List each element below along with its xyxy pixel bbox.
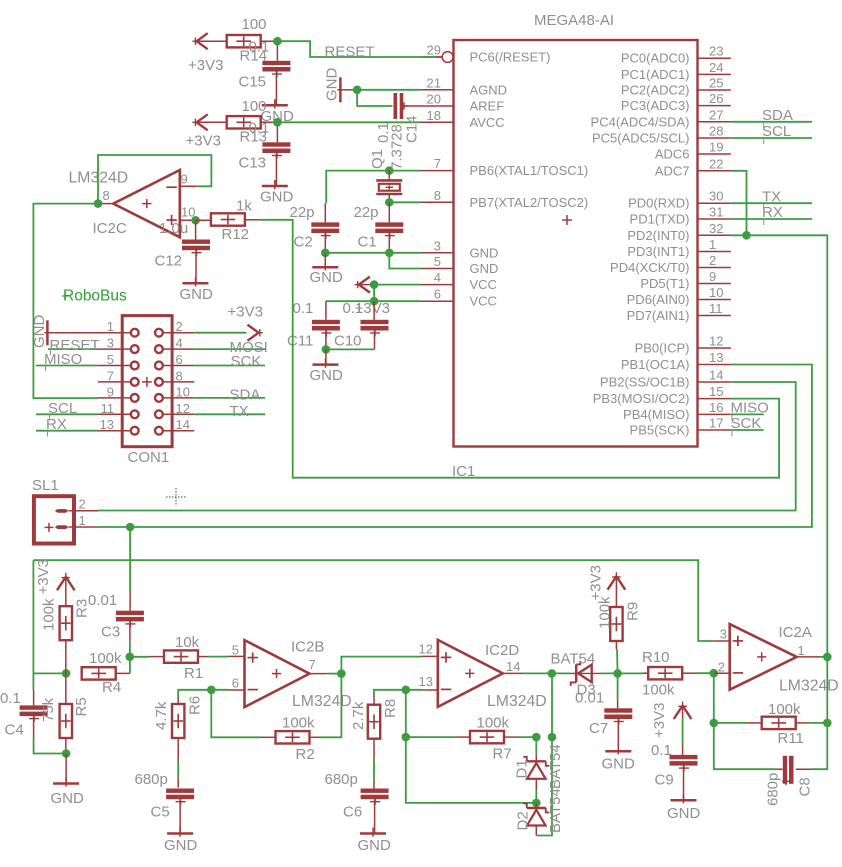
wire C1 top: [388, 202, 390, 222]
svg-text:4.7k: 4.7k: [153, 701, 170, 730]
wire to GND (R5): [65, 754, 67, 784]
svg-text:16: 16: [709, 400, 723, 415]
wire C15-GND: [275, 72, 277, 106]
label 100k (R11): [768, 701, 801, 718]
wire T branch to R-node: [33, 672, 66, 674]
capacitor C13: [262, 142, 290, 159]
wire ADC7 to INT0: [731, 171, 747, 236]
wire R8 top to pin13: [374, 690, 438, 706]
wire C9-GND: [683, 766, 685, 801]
label C9: [655, 772, 674, 789]
svg-text:IC2A: IC2A: [779, 624, 812, 641]
label LM324D (IC2B): [292, 693, 352, 710]
wire R5 bottom: [65, 738, 67, 754]
svg-text:BAT54: BAT54: [547, 788, 564, 833]
svg-text:C10: C10: [334, 333, 362, 350]
label R14: [240, 48, 268, 65]
svg-text:C6: C6: [343, 804, 362, 821]
IC1 pin 27 PC4(ADC4/SDA): [591, 107, 731, 129]
svg-text:100k: 100k: [477, 715, 510, 732]
svg-text:680p: 680p: [135, 771, 168, 788]
IC1 pin 2 PD4(XCK/T0): [610, 253, 731, 275]
wire SDA (CON1 pin10): [194, 397, 265, 399]
wire C8 left: [714, 723, 783, 769]
junction dot IC2D out: [548, 669, 557, 678]
svg-text:11: 11: [101, 401, 115, 416]
+3V3 symbol (R14): [192, 33, 227, 49]
svg-text:2: 2: [79, 496, 86, 511]
junction dot IC2B -in: [207, 686, 216, 695]
svg-text:2.7k: 2.7k: [350, 701, 367, 730]
svg-text:7: 7: [434, 156, 441, 171]
wire C13-GND: [275, 153, 277, 186]
IC2A output stub: [797, 656, 820, 658]
label 1 (IC2A): [798, 643, 805, 658]
IC1 pin 19 ADC6: [655, 140, 731, 162]
junction dot R3R4R5: [62, 669, 71, 678]
label +3V3 (R13): [186, 133, 221, 150]
wire AGND down to C14: [357, 90, 392, 106]
+3V3 symbol (C9): [674, 702, 692, 720]
wire R10 right: [683, 672, 714, 674]
svg-text:14: 14: [709, 368, 723, 383]
wire IC2C feedback: [98, 155, 211, 204]
label R8 rotated: [382, 699, 399, 718]
IC1 pin 1 PD3(INT1): [627, 237, 731, 259]
wire R7 left: [406, 736, 471, 738]
svg-text:5: 5: [434, 254, 441, 269]
label R9 rotated: [625, 602, 642, 621]
svg-text:PD5(T1): PD5(T1): [640, 276, 689, 291]
svg-text:PD4(XCK/T0): PD4(XCK/T0): [610, 260, 689, 275]
svg-text:D2: D2: [515, 811, 532, 830]
svg-text:PD2(INT0): PD2(INT0): [627, 228, 689, 243]
svg-text:ADC7: ADC7: [655, 163, 690, 178]
junction dot XTAL1: [385, 166, 394, 175]
label +3V3 (C9) rotated: [651, 703, 668, 738]
svg-text:R10: R10: [642, 649, 670, 666]
label +3V3 (R14): [188, 57, 223, 74]
svg-text:8: 8: [103, 188, 110, 203]
wire R12 right: [245, 219, 259, 221]
IC1 pin 25 PC2(ADC2): [621, 76, 731, 98]
label C15: [239, 74, 267, 91]
label RoboBus: [62, 288, 127, 305]
wire D3 right: [601, 672, 618, 674]
ground symbol (AGND) rotated: [337, 77, 352, 102]
label R10 (name): [642, 649, 670, 666]
wire MOSI (CON1 pin4): [194, 348, 265, 350]
capacitor C11: [312, 320, 340, 337]
CON1 pins 13/14: [98, 417, 194, 434]
svg-text:RX: RX: [762, 204, 783, 221]
label R1: [184, 665, 203, 682]
capacitor C10: [361, 320, 389, 337]
crosshair cursor: [166, 488, 186, 506]
wire R2 right up to out: [309, 674, 341, 738]
wire R6 bottom to C5: [177, 738, 179, 788]
wire C7 top: [617, 673, 619, 708]
svg-text:22p: 22p: [354, 204, 379, 221]
svg-text:R2: R2: [296, 746, 315, 763]
svg-text:0.1: 0.1: [343, 300, 364, 317]
wire MISO pin16: [731, 413, 764, 415]
svg-text:2: 2: [718, 660, 725, 675]
wire C12 top: [195, 220, 197, 239]
svg-text:+3V3: +3V3: [186, 133, 221, 150]
wire IC2B out to IC2D +in: [341, 656, 437, 673]
svg-text:680p: 680p: [325, 771, 358, 788]
svg-text:R1: R1: [184, 665, 203, 682]
svg-text:22p: 22p: [290, 204, 315, 221]
svg-text:SCL: SCL: [762, 123, 791, 140]
svg-text:26: 26: [709, 91, 723, 106]
resistor R2: [276, 731, 310, 743]
svg-text:IC2B: IC2B: [291, 639, 324, 656]
label RESET: [325, 44, 375, 61]
svg-text:C9: C9: [655, 772, 674, 789]
wire AGND to pin21: [352, 89, 421, 91]
svg-text:3: 3: [720, 627, 727, 642]
capacitor C3: [116, 611, 144, 628]
IC1 pin 28 PC5(ADC5/SCL): [592, 124, 731, 146]
svg-text:PD7(AIN1): PD7(AIN1): [627, 308, 690, 323]
svg-text:10: 10: [709, 285, 723, 300]
label 0.1 (C15 value): [249, 39, 270, 56]
junction dot INT0: [742, 231, 751, 240]
wire C1 bottom: [388, 233, 390, 253]
IC1 pin 32 PD2(INT0): [627, 221, 731, 243]
label C4: [5, 722, 24, 739]
junction dot D1-D2: [532, 799, 541, 808]
svg-text:MISO: MISO: [731, 400, 769, 417]
svg-text:IC2D: IC2D: [485, 642, 519, 659]
wire XTAL1 net: [326, 171, 420, 204]
label 10 (IC2C +in): [181, 205, 195, 220]
wire INT0 to IC2A out: [731, 235, 827, 657]
svg-text:100k: 100k: [89, 650, 122, 667]
label 13 (IC2D): [419, 674, 433, 689]
wire IC2A +in net: [33, 560, 729, 641]
wire SDA: [731, 121, 812, 123]
wire C2 bottom: [324, 233, 326, 253]
svg-text:1: 1: [107, 319, 114, 334]
ground GND (C13): [262, 180, 288, 189]
label 0.01 (C7): [575, 690, 604, 707]
svg-text:100: 100: [242, 98, 267, 115]
label 14 (IC2D): [506, 659, 520, 674]
label 680p (C8) rotated: [765, 773, 782, 806]
label GND (C7): [602, 756, 636, 773]
junction dot GND-C2: [321, 249, 330, 258]
svg-text:C7: C7: [589, 720, 608, 737]
label SCK (CON1): [231, 353, 262, 370]
svg-text:13: 13: [709, 350, 723, 365]
label D3: [577, 682, 596, 699]
svg-text:VCC: VCC: [470, 277, 497, 292]
wire C14 to AREF pin20: [405, 105, 421, 107]
label GND (AGND) rotated: [324, 68, 341, 102]
svg-text:8: 8: [434, 188, 441, 203]
ground GND (C15): [262, 99, 288, 108]
wire R7 right: [504, 736, 537, 738]
IC2D output stub: [503, 672, 523, 674]
junction dot RESET: [273, 37, 282, 46]
junction dot out-col row737: [548, 733, 557, 742]
resistor R3: [60, 606, 72, 640]
svg-text:R9: R9: [625, 602, 642, 621]
capacitor C15: [262, 61, 290, 78]
IC2B output stub: [310, 673, 328, 675]
label C8 rotated: [797, 777, 814, 796]
svg-text:19: 19: [709, 140, 723, 155]
svg-text:LM324D: LM324D: [292, 693, 352, 710]
wire C4 bottom: [34, 716, 67, 753]
label 0.1 (C14 value) rotated: [375, 122, 392, 143]
label 7.3728 rotated: [389, 124, 406, 170]
svg-text:C15: C15: [239, 74, 267, 91]
wire RESET net: [277, 41, 442, 57]
wire R9 bottom: [616, 641, 617, 673]
wire R1 right to IC2B: [198, 655, 245, 657]
label MEGA48-AI: [534, 12, 614, 29]
label GND (C13): [260, 189, 294, 206]
label 2 (SL1): [79, 496, 86, 511]
label 2 (IC2A): [718, 660, 725, 675]
resistor R11: [762, 717, 796, 729]
IC1 pin 26 PC3(ADC3): [621, 91, 731, 113]
svg-text:GND: GND: [51, 790, 85, 807]
label IC1: [452, 463, 475, 480]
svg-text:PC1(ADC1): PC1(ADC1): [621, 67, 690, 82]
svg-text:8: 8: [176, 368, 183, 383]
IC1 pin 12 PB0(ICP): [635, 334, 731, 356]
label 0.1 (C4): [0, 690, 21, 707]
wire GND net to pin5: [389, 253, 420, 269]
wire C10 top: [373, 301, 375, 320]
label 0.1 (C10): [343, 300, 364, 317]
label R5 rotated: [73, 697, 90, 716]
svg-text:GND: GND: [470, 245, 499, 260]
label 22p (C2): [290, 204, 315, 221]
svg-text:PB7(XTAL2/TOSC2): PB7(XTAL2/TOSC2): [470, 195, 589, 210]
label 680p (C6): [325, 771, 358, 788]
label +3V3 (R9) rotated: [588, 565, 605, 600]
CON1 pins 9/10: [98, 384, 194, 401]
svg-text:PD1(TXD): PD1(TXD): [630, 212, 690, 227]
junction dot R11 left: [710, 719, 719, 728]
svg-text:C5: C5: [151, 804, 170, 821]
svg-text:+3V3: +3V3: [228, 304, 263, 321]
svg-text:9: 9: [709, 269, 716, 284]
label TX (CON1): [230, 403, 249, 420]
label GND (C12): [180, 286, 214, 303]
label 680p (C5): [135, 771, 168, 788]
label IC2D: [485, 642, 519, 659]
svg-text:R6: R6: [187, 696, 204, 715]
svg-text:TX: TX: [230, 403, 249, 420]
svg-text:SDA: SDA: [230, 387, 261, 404]
wire TX: [731, 202, 812, 204]
IC1 pin 3 GND: [421, 238, 499, 260]
label C5: [151, 804, 170, 821]
svg-text:25: 25: [709, 76, 723, 91]
svg-text:GND: GND: [310, 367, 344, 384]
connector CON1 body: [122, 316, 172, 447]
label 10k (R1): [175, 634, 200, 651]
svg-text:4: 4: [176, 336, 183, 351]
op-amp IC2C (LM324D): [113, 170, 180, 237]
CON1 pins 1/2: [98, 319, 194, 336]
svg-text:C8: C8: [797, 777, 814, 796]
IC U1 origin cross: [562, 215, 572, 225]
svg-text:RESET: RESET: [325, 44, 375, 61]
label R6 rotated: [187, 696, 204, 715]
svg-text:RoboBus: RoboBus: [63, 288, 127, 305]
svg-text:7.3728: 7.3728: [389, 124, 406, 170]
svg-text:GND: GND: [31, 315, 48, 349]
label 100 (R13 value): [242, 98, 267, 115]
op-amp IC2D (LM324D): [438, 640, 503, 707]
wire +3V3 (CON1 pin2): [194, 332, 246, 334]
wire PB2 wrap to SL1 pin2: [98, 382, 796, 511]
wire C3 bottom to node: [129, 621, 131, 673]
wire SCK pin17: [731, 429, 764, 431]
svg-text:PB1(OC1A): PB1(OC1A): [621, 357, 690, 372]
wire VCC down: [373, 285, 375, 302]
op-amp IC2B (LM324D): [245, 640, 310, 707]
wire D1 bottom: [535, 779, 537, 803]
wire R12 left: [196, 219, 211, 221]
junction dot IC2D -in: [402, 686, 411, 695]
label LM324D (IC2A): [779, 678, 839, 695]
wire Q1 top stub: [388, 171, 390, 182]
wire pin13 node down: [405, 690, 407, 737]
IC2C pin10 stub: [180, 219, 196, 221]
label 4.7k (R6) rotated: [153, 701, 170, 730]
wire C12-GND: [195, 250, 197, 283]
+3V3 symbol (CON1): [248, 325, 263, 341]
svg-text:29: 29: [427, 43, 441, 58]
resistor R7: [470, 731, 504, 743]
resistor R10: [648, 667, 682, 679]
wire SCK (CON1 pin6): [194, 365, 265, 367]
svg-text:PC5(ADC5/SCL): PC5(ADC5/SCL): [592, 131, 690, 146]
label 0.1 (C9): [651, 742, 672, 759]
capacitor C9: [670, 755, 698, 772]
svg-text:12: 12: [176, 401, 190, 416]
IC1 pin 29 PC6(/RESET): [421, 43, 551, 65]
svg-text:RX: RX: [46, 416, 67, 433]
capacitor C1: [375, 222, 403, 239]
svg-text:PB2(SS/OC1B): PB2(SS/OC1B): [600, 375, 690, 390]
IC2C pin9 stub: [180, 185, 197, 187]
resistor R13: [227, 116, 261, 128]
label SCL: [762, 123, 791, 144]
label RX (CON1): [46, 416, 67, 436]
label C7: [589, 720, 608, 737]
capacitor C14: [394, 93, 408, 119]
ground GND (C12): [183, 277, 209, 286]
label 0.1 (C11): [293, 300, 314, 317]
svg-text:100k: 100k: [41, 598, 58, 631]
label D2 rotated: [515, 811, 532, 830]
svg-text:PB3(MOSI/OC2): PB3(MOSI/OC2): [593, 391, 690, 406]
IC1 pin 4 VCC: [421, 270, 497, 292]
svg-text:5: 5: [107, 352, 114, 367]
svg-text:Q1: Q1: [369, 149, 386, 169]
svg-text:TX: TX: [762, 189, 781, 206]
svg-text:C4: C4: [5, 722, 24, 739]
CON1 pin1 GND wire: [53, 332, 98, 334]
junction dot SL1 pin1: [126, 523, 135, 532]
svg-text:6: 6: [176, 352, 183, 367]
ground GND (C5): [167, 828, 193, 837]
svg-text:PC6(/RESET): PC6(/RESET): [470, 50, 551, 65]
diode D1 (BAT54): [523, 757, 549, 779]
wire node down to D1-D2 row: [406, 737, 537, 803]
svg-text:PB0(ICP): PB0(ICP): [635, 341, 690, 356]
label GND (C2): [310, 269, 344, 286]
CON1 pins 5/6: [98, 352, 194, 369]
label SDA: [762, 107, 793, 128]
svg-text:R11: R11: [778, 730, 804, 747]
svg-text:PC2(ADC2): PC2(ADC2): [621, 83, 690, 98]
IC2A pin2 stub: [714, 672, 730, 674]
CON1 origin cross: [142, 377, 152, 387]
label TX: [762, 189, 781, 210]
wire R10 left: [618, 672, 648, 674]
junction dot D1 top: [532, 733, 541, 742]
ground GND (C6): [360, 828, 386, 837]
wire VCC to C10/C11: [326, 300, 374, 302]
label 0.01 (C3): [88, 592, 117, 609]
svg-text:GND: GND: [324, 68, 341, 102]
svg-text:22: 22: [709, 156, 723, 171]
SL1 origin plus: [45, 523, 54, 532]
label 100k (R4): [89, 650, 122, 667]
label 9 (IC2C -in): [181, 172, 188, 187]
junction dot IC2C out: [94, 199, 103, 208]
label GND (C5): [164, 837, 198, 854]
IC1 pin 20 AREF: [421, 92, 505, 114]
svg-text:C1: C1: [358, 234, 377, 251]
svg-text:GND: GND: [358, 837, 392, 854]
svg-text:6: 6: [434, 287, 441, 302]
wire C6-GND: [374, 799, 376, 833]
wire PB1 wrap to SL1 pin1: [98, 365, 812, 528]
svg-text:20: 20: [427, 92, 441, 107]
svg-text:28: 28: [709, 124, 723, 139]
label C6: [343, 804, 362, 821]
svg-text:6: 6: [232, 676, 239, 691]
svg-text:13: 13: [100, 417, 114, 432]
svg-text:9: 9: [181, 172, 188, 187]
label MISO (pin16): [731, 400, 769, 421]
wire R3 bottom: [65, 640, 67, 673]
label 100k (R10): [642, 682, 675, 699]
capacitor C8 (vertical): [782, 756, 794, 786]
svg-text:AGND: AGND: [470, 82, 508, 97]
svg-text:+3V3: +3V3: [588, 565, 605, 600]
wire R13-C13 junction: [260, 122, 277, 142]
label R13: [240, 129, 268, 146]
svg-text:PD6(AIN0): PD6(AIN0): [627, 292, 690, 307]
IC1 pin 11 PD7(AIN1): [627, 301, 731, 323]
label +3V3 (CON1): [228, 304, 263, 321]
+3V3 symbol (R13): [192, 114, 227, 130]
capacitor C7: [604, 708, 632, 725]
